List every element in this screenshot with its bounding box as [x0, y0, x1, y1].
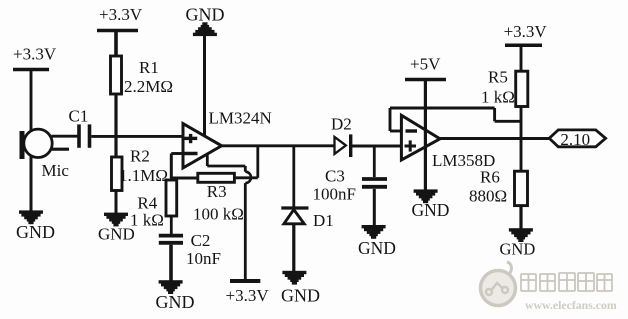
- svg-text:C1: C1: [69, 107, 89, 126]
- svg-text:2.2MΩ: 2.2MΩ: [124, 77, 173, 96]
- svg-text:+3.3V: +3.3V: [13, 45, 57, 64]
- svg-text:1.1MΩ: 1.1MΩ: [119, 166, 168, 185]
- svg-text:R5: R5: [488, 68, 508, 87]
- svg-text:GND: GND: [156, 292, 195, 312]
- svg-text:GND: GND: [358, 238, 396, 258]
- svg-text:R1: R1: [139, 58, 159, 77]
- svg-text:GND: GND: [281, 286, 320, 306]
- svg-text:C3: C3: [325, 167, 345, 186]
- svg-text:R6: R6: [480, 168, 500, 187]
- svg-text:C2: C2: [191, 231, 211, 250]
- svg-text:D1: D1: [313, 211, 334, 230]
- svg-text:100 kΩ: 100 kΩ: [193, 205, 244, 224]
- svg-text:10nF: 10nF: [186, 249, 221, 268]
- svg-text:880Ω: 880Ω: [469, 187, 507, 206]
- svg-text:2.10: 2.10: [560, 130, 590, 149]
- svg-text:www.elecfans.com: www.elecfans.com: [525, 298, 617, 312]
- svg-text:Mic: Mic: [42, 161, 70, 180]
- svg-text:1 kΩ: 1 kΩ: [481, 88, 515, 107]
- svg-text:R3: R3: [207, 182, 227, 201]
- svg-text:+5V: +5V: [410, 55, 441, 74]
- svg-text:LM324N: LM324N: [209, 109, 272, 128]
- svg-text:+3.3V: +3.3V: [504, 22, 548, 41]
- svg-text:100nF: 100nF: [313, 185, 356, 204]
- svg-text:GND: GND: [412, 200, 450, 220]
- svg-text:1 kΩ: 1 kΩ: [130, 211, 164, 230]
- svg-text:GND: GND: [186, 4, 225, 24]
- svg-text:R2: R2: [130, 147, 150, 166]
- svg-text:D2: D2: [331, 115, 352, 134]
- svg-text:+3.3V: +3.3V: [99, 5, 143, 24]
- svg-text:GND: GND: [500, 240, 536, 259]
- svg-text:+3.3V: +3.3V: [226, 286, 270, 305]
- svg-text:GND: GND: [16, 222, 55, 242]
